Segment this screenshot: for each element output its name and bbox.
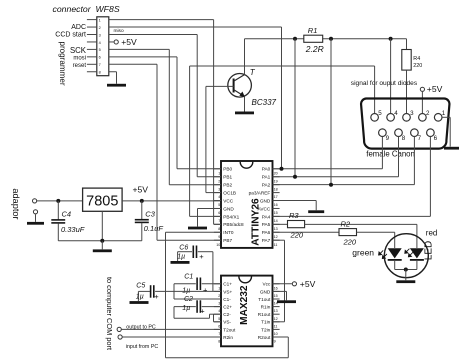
label miso [114, 28, 124, 34]
ground at adaptor [27, 222, 44, 225]
svg-text:18: 18 [274, 187, 278, 191]
svg-text:R4: R4 [413, 56, 420, 62]
resistor R1 2.2R [304, 26, 324, 54]
svg-text:16: 16 [274, 286, 278, 290]
svg-text:PB2: PB2 [223, 183, 232, 188]
svg-text:miso: miso [114, 28, 124, 34]
svg-text:16: 16 [274, 203, 278, 207]
svg-text:C2-: C2- [223, 312, 231, 317]
svg-text:8: 8 [218, 340, 220, 344]
wire adaptor minus down [35, 214, 37, 222]
wire junction to PA1 [294, 39, 296, 177]
svg-text:C1+: C1+ [223, 282, 232, 287]
svg-text:input from PC: input from PC [126, 344, 159, 350]
svg-text:T2out: T2out [223, 327, 236, 332]
svg-text:R1: R1 [308, 26, 318, 35]
label mosi (pin6) [73, 56, 86, 62]
svg-text:7805: 7805 [86, 193, 118, 209]
svg-text:R1in: R1in [261, 305, 271, 310]
resistor R3 220 [288, 211, 305, 240]
svg-text:LED: LED [424, 241, 435, 260]
wire collector up to R1 [244, 39, 246, 75]
svg-text:0.33uF: 0.33uF [61, 225, 85, 234]
svg-text:Vcc: Vcc [262, 282, 270, 287]
svg-text:3: 3 [410, 110, 414, 117]
node R1 right junction [329, 37, 333, 41]
svg-text:green: green [352, 248, 374, 258]
adaptor terminal - (open circle) [33, 210, 37, 214]
svg-text:VCC: VCC [223, 198, 234, 203]
wire reset pin7 to PB7 [109, 64, 221, 240]
label green [352, 248, 374, 258]
terminal output to PC [117, 327, 221, 331]
svg-text:GND: GND [260, 198, 271, 203]
svg-text:C5: C5 [136, 283, 145, 290]
wire PA7 to MAX232 T1in [273, 240, 285, 322]
svg-text:+: + [203, 285, 208, 294]
svg-text:R2in: R2in [223, 335, 233, 340]
wire PA6 to R2 [273, 231, 340, 233]
label LED (vertical) [424, 241, 435, 260]
svg-text:GND: GND [223, 206, 234, 211]
svg-text:PB5/adc8: PB5/adc8 [223, 222, 244, 227]
svg-text:MAX232: MAX232 [239, 285, 250, 325]
wire pin1 to PB4/X1 and canon pin5 net [109, 20, 375, 225]
svg-text:programmer: programmer [58, 41, 67, 85]
svg-text:2: 2 [99, 26, 101, 30]
svg-text:reset: reset [73, 63, 87, 69]
svg-text:female Canon: female Canon [366, 150, 415, 159]
wire INT0 to MAX232 R2out [166, 232, 289, 357]
svg-text:PA6: PA6 [262, 230, 271, 235]
svg-text:2.2R: 2.2R [305, 44, 324, 54]
label connector WF8S [53, 4, 120, 14]
svg-text:C1-: C1- [223, 297, 231, 302]
wire PA0 row to canon pin9 [273, 168, 383, 170]
svg-text:6: 6 [218, 324, 220, 328]
svg-text:output to PC: output to PC [126, 324, 156, 330]
wire miso: pin2 to PA0 [109, 27, 282, 169]
svg-text:PB4/X1: PB4/X1 [223, 214, 239, 219]
svg-text:4: 4 [218, 309, 220, 313]
label +5V at 7805 output [133, 185, 149, 195]
svg-text:5: 5 [378, 110, 382, 117]
wire junction to PA2 [330, 39, 332, 185]
svg-text:R2: R2 [341, 219, 351, 228]
svg-text:9: 9 [218, 235, 220, 239]
node PA1 junction [293, 175, 297, 179]
ground at emitter [235, 112, 254, 115]
svg-text:red: red [426, 228, 438, 237]
wire canon pin5 up [374, 66, 376, 114]
svg-text:C2: C2 [184, 296, 193, 303]
svg-text:+: + [154, 292, 159, 301]
svg-text:PB7: PB7 [223, 238, 232, 243]
svg-text:20: 20 [274, 171, 278, 175]
svg-text:1: 1 [99, 18, 101, 22]
svg-text:1µ: 1µ [177, 254, 185, 261]
wire PA1 row to canon pin8 [273, 176, 399, 178]
transistor T BC337 (NPN) [206, 68, 277, 107]
wire emitter down [244, 97, 246, 112]
svg-text:1: 1 [218, 171, 220, 175]
svg-text:7: 7 [218, 332, 220, 336]
wire base to OC1B [206, 86, 221, 192]
svg-text:mosi: mosi [73, 56, 86, 62]
svg-text:+5V: +5V [121, 37, 137, 47]
svg-text:6: 6 [99, 56, 101, 60]
resistor R4 220 [402, 50, 423, 71]
wire canon pin6 down to PA4 [429, 136, 431, 216]
svg-text:13: 13 [274, 309, 278, 313]
svg-text:GND: GND [260, 289, 271, 294]
node input junction [56, 199, 60, 203]
wire adaptor to 7805 input [37, 200, 83, 202]
svg-text:T2in: T2in [261, 327, 271, 332]
capacitor C5 1u [136, 283, 221, 301]
svg-text:R2out: R2out [258, 335, 271, 340]
svg-text:T1out: T1out [258, 297, 271, 302]
svg-text:PA1: PA1 [262, 175, 271, 180]
svg-text:signal for ouput diodes: signal for ouput diodes [351, 80, 418, 87]
connector CON1 WF8S 8-pin header [97, 17, 109, 76]
svg-text:9: 9 [274, 340, 276, 344]
svg-text:R1out: R1out [258, 312, 271, 317]
wire pin3 to PB1 [109, 35, 221, 177]
ground at C5 [130, 301, 149, 304]
svg-text:12: 12 [274, 317, 278, 321]
svg-text:2: 2 [426, 110, 430, 117]
capacitor C2 1u (flying C2+/C2-) [174, 296, 221, 322]
wire mosi pin6 to PB0 [109, 57, 221, 169]
+5V symbol at MAX232 Vcc [273, 279, 316, 289]
label reset (pin7) [73, 63, 87, 69]
wire ground rail under 7805 [58, 211, 142, 241]
label signal for ouput diodes [351, 80, 418, 87]
wire pin8 to ground [109, 72, 117, 84]
ground at ATTINY26 pin16 [308, 210, 324, 213]
adaptor terminal + (open circle) [33, 199, 37, 203]
svg-text:VS+: VS+ [223, 289, 232, 294]
resistor R2 220 [339, 219, 357, 246]
ground at LED [396, 280, 415, 283]
wire R2 to green LED [357, 232, 395, 248]
svg-text:PB1: PB1 [223, 175, 232, 180]
wire R1 net [245, 39, 407, 50]
svg-text:12: 12 [274, 235, 278, 239]
svg-text:C3: C3 [145, 210, 155, 219]
svg-text:+5V: +5V [427, 84, 443, 94]
svg-text:14: 14 [274, 219, 278, 223]
node PA2 junction [329, 183, 333, 187]
svg-text:9: 9 [386, 135, 390, 142]
svg-text:4: 4 [394, 110, 398, 117]
label programmer (vertical) [58, 41, 67, 85]
ground at MAX232 pin15 [277, 300, 296, 303]
svg-text:6: 6 [434, 135, 438, 142]
svg-text:PA2: PA2 [262, 183, 271, 188]
wire ATTINY26 left GND to ground [198, 208, 222, 226]
wire PA2 row to canon pin7 [273, 184, 415, 186]
terminal input from PC [118, 335, 221, 339]
svg-text:8: 8 [99, 71, 101, 75]
svg-text:C2+: C2+ [223, 305, 232, 310]
IC U2 MAX232 [214, 276, 280, 347]
svg-text:+: + [200, 307, 205, 316]
label SCK (pin5) [70, 46, 87, 55]
wire canon pin8 down [398, 136, 400, 176]
svg-text:15: 15 [274, 294, 278, 298]
ground under 7805 [93, 241, 112, 252]
capacitor C4 0.33uF [51, 201, 84, 241]
capacitor C3 0.1uF [135, 201, 164, 241]
wire PA4 row to canon pin6 [273, 215, 431, 217]
svg-text:1: 1 [442, 110, 446, 117]
svg-text:15: 15 [274, 211, 278, 215]
ground at ATTINY26 pin6 [188, 227, 207, 230]
wire canon pin1 to ground [442, 117, 450, 146]
svg-text:1µ: 1µ [182, 287, 190, 294]
svg-text:INT0: INT0 [223, 230, 234, 235]
label adaptor (vertical) [11, 188, 21, 219]
svg-text:19: 19 [274, 179, 278, 183]
svg-text:1: 1 [218, 286, 220, 290]
wire PA5 to R3 [273, 223, 288, 225]
svg-text:7: 7 [99, 63, 101, 67]
svg-text:BC337: BC337 [252, 98, 277, 107]
svg-text:PA5: PA5 [262, 222, 271, 227]
label to computer COM port (vertical) [105, 277, 114, 350]
svg-text:PA0: PA0 [262, 167, 271, 172]
svg-text:CCD start: CCD start [55, 32, 86, 39]
svg-text:11: 11 [274, 324, 278, 328]
connector left pin stubs [87, 20, 97, 72]
svg-text:4: 4 [218, 195, 220, 199]
svg-text:PA4: PA4 [262, 214, 271, 219]
svg-text:8: 8 [218, 227, 220, 231]
svg-text:C4: C4 [62, 210, 72, 219]
wire R4 to canon pin3 [406, 70, 408, 114]
svg-text:13: 13 [274, 227, 278, 231]
label red [426, 228, 438, 237]
svg-text:PA7: PA7 [262, 238, 271, 243]
svg-text:ADC: ADC [71, 24, 86, 31]
wire junction down to canon pin4 [390, 39, 392, 114]
wire canon pin9 down [381, 136, 383, 168]
svg-text:VS-: VS- [223, 320, 231, 325]
wire ATTINY26 right GND to ground [273, 201, 317, 211]
node R1 left junction [293, 37, 297, 41]
svg-text:2: 2 [218, 179, 220, 183]
svg-text:220: 220 [413, 63, 422, 69]
svg-text:3: 3 [218, 302, 220, 306]
LED dual red/green in circle [379, 234, 429, 281]
label female Canon [366, 150, 415, 159]
svg-text:+5V: +5V [133, 185, 149, 195]
svg-text:7: 7 [218, 219, 220, 223]
svg-text:11: 11 [274, 243, 278, 247]
svg-text:17: 17 [274, 195, 278, 199]
svg-text:C6: C6 [179, 245, 188, 252]
node canon pin4 junction [389, 37, 393, 41]
svg-text:2: 2 [218, 294, 220, 298]
svg-text:8: 8 [402, 135, 406, 142]
wire R3 to red LED [305, 224, 417, 248]
svg-text:10: 10 [216, 243, 220, 247]
ground at C6 [171, 261, 190, 264]
svg-text:1µ: 1µ [136, 294, 144, 301]
svg-text:220: 220 [343, 238, 357, 247]
ground at canon pin1 [444, 147, 459, 150]
IC U1 ATTINY26 [214, 161, 280, 248]
svg-text:5: 5 [99, 48, 101, 52]
svg-text:SCK: SCK [70, 46, 87, 55]
svg-text:0.1uF: 0.1uF [144, 224, 164, 233]
svg-text:connector WF8S: connector WF8S [53, 4, 120, 14]
svg-text:5: 5 [218, 203, 220, 207]
svg-text:adaptor: adaptor [11, 188, 21, 219]
svg-text:to computer COM port: to computer COM port [105, 277, 114, 350]
connector female Canon (DB9) [361, 99, 449, 149]
wire SCK pin5 to PB2 [109, 49, 221, 184]
label input from PC [126, 344, 159, 350]
wire 7805 output +5V rail [122, 200, 221, 202]
svg-text:OC1B: OC1B [223, 190, 236, 195]
node +5V rail junction [140, 199, 144, 203]
svg-text:1µ: 1µ [182, 305, 190, 312]
svg-text:T1in: T1in [261, 320, 271, 325]
svg-text:+5V: +5V [300, 279, 316, 289]
label output to PC [126, 324, 156, 330]
svg-text:3: 3 [99, 33, 101, 37]
label CCD start (pin3) [55, 32, 86, 39]
svg-text:R3: R3 [289, 211, 299, 220]
node PA0 miso junction [280, 167, 284, 171]
capacitor C1 1u (flying C1+/C1-) [174, 273, 221, 299]
regulator U3 7805 [83, 188, 123, 211]
wire MAX232 GND to ground [273, 291, 287, 300]
svg-text:PB0: PB0 [223, 167, 232, 172]
+5V symbol at pin4 [109, 37, 137, 47]
svg-text:4: 4 [99, 41, 101, 45]
+5V symbol at canon pin2 [420, 84, 442, 114]
svg-text:pa3/AREF: pa3/AREF [249, 190, 271, 195]
label ADC (pin2) [71, 24, 86, 31]
node ground rail junction [100, 239, 104, 243]
ground at connector pin8 [107, 84, 126, 87]
svg-text:+: + [199, 252, 204, 261]
svg-text:10: 10 [274, 332, 278, 336]
svg-text:6: 6 [218, 211, 220, 215]
svg-text:ATTINY26: ATTINY26 [250, 198, 261, 246]
svg-text:3: 3 [218, 187, 220, 191]
wire canon pin7 down [413, 136, 415, 184]
svg-text:5: 5 [218, 317, 220, 321]
svg-text:C1: C1 [184, 273, 193, 280]
svg-text:7: 7 [418, 135, 422, 142]
capacitor C6 1u [177, 245, 213, 292]
